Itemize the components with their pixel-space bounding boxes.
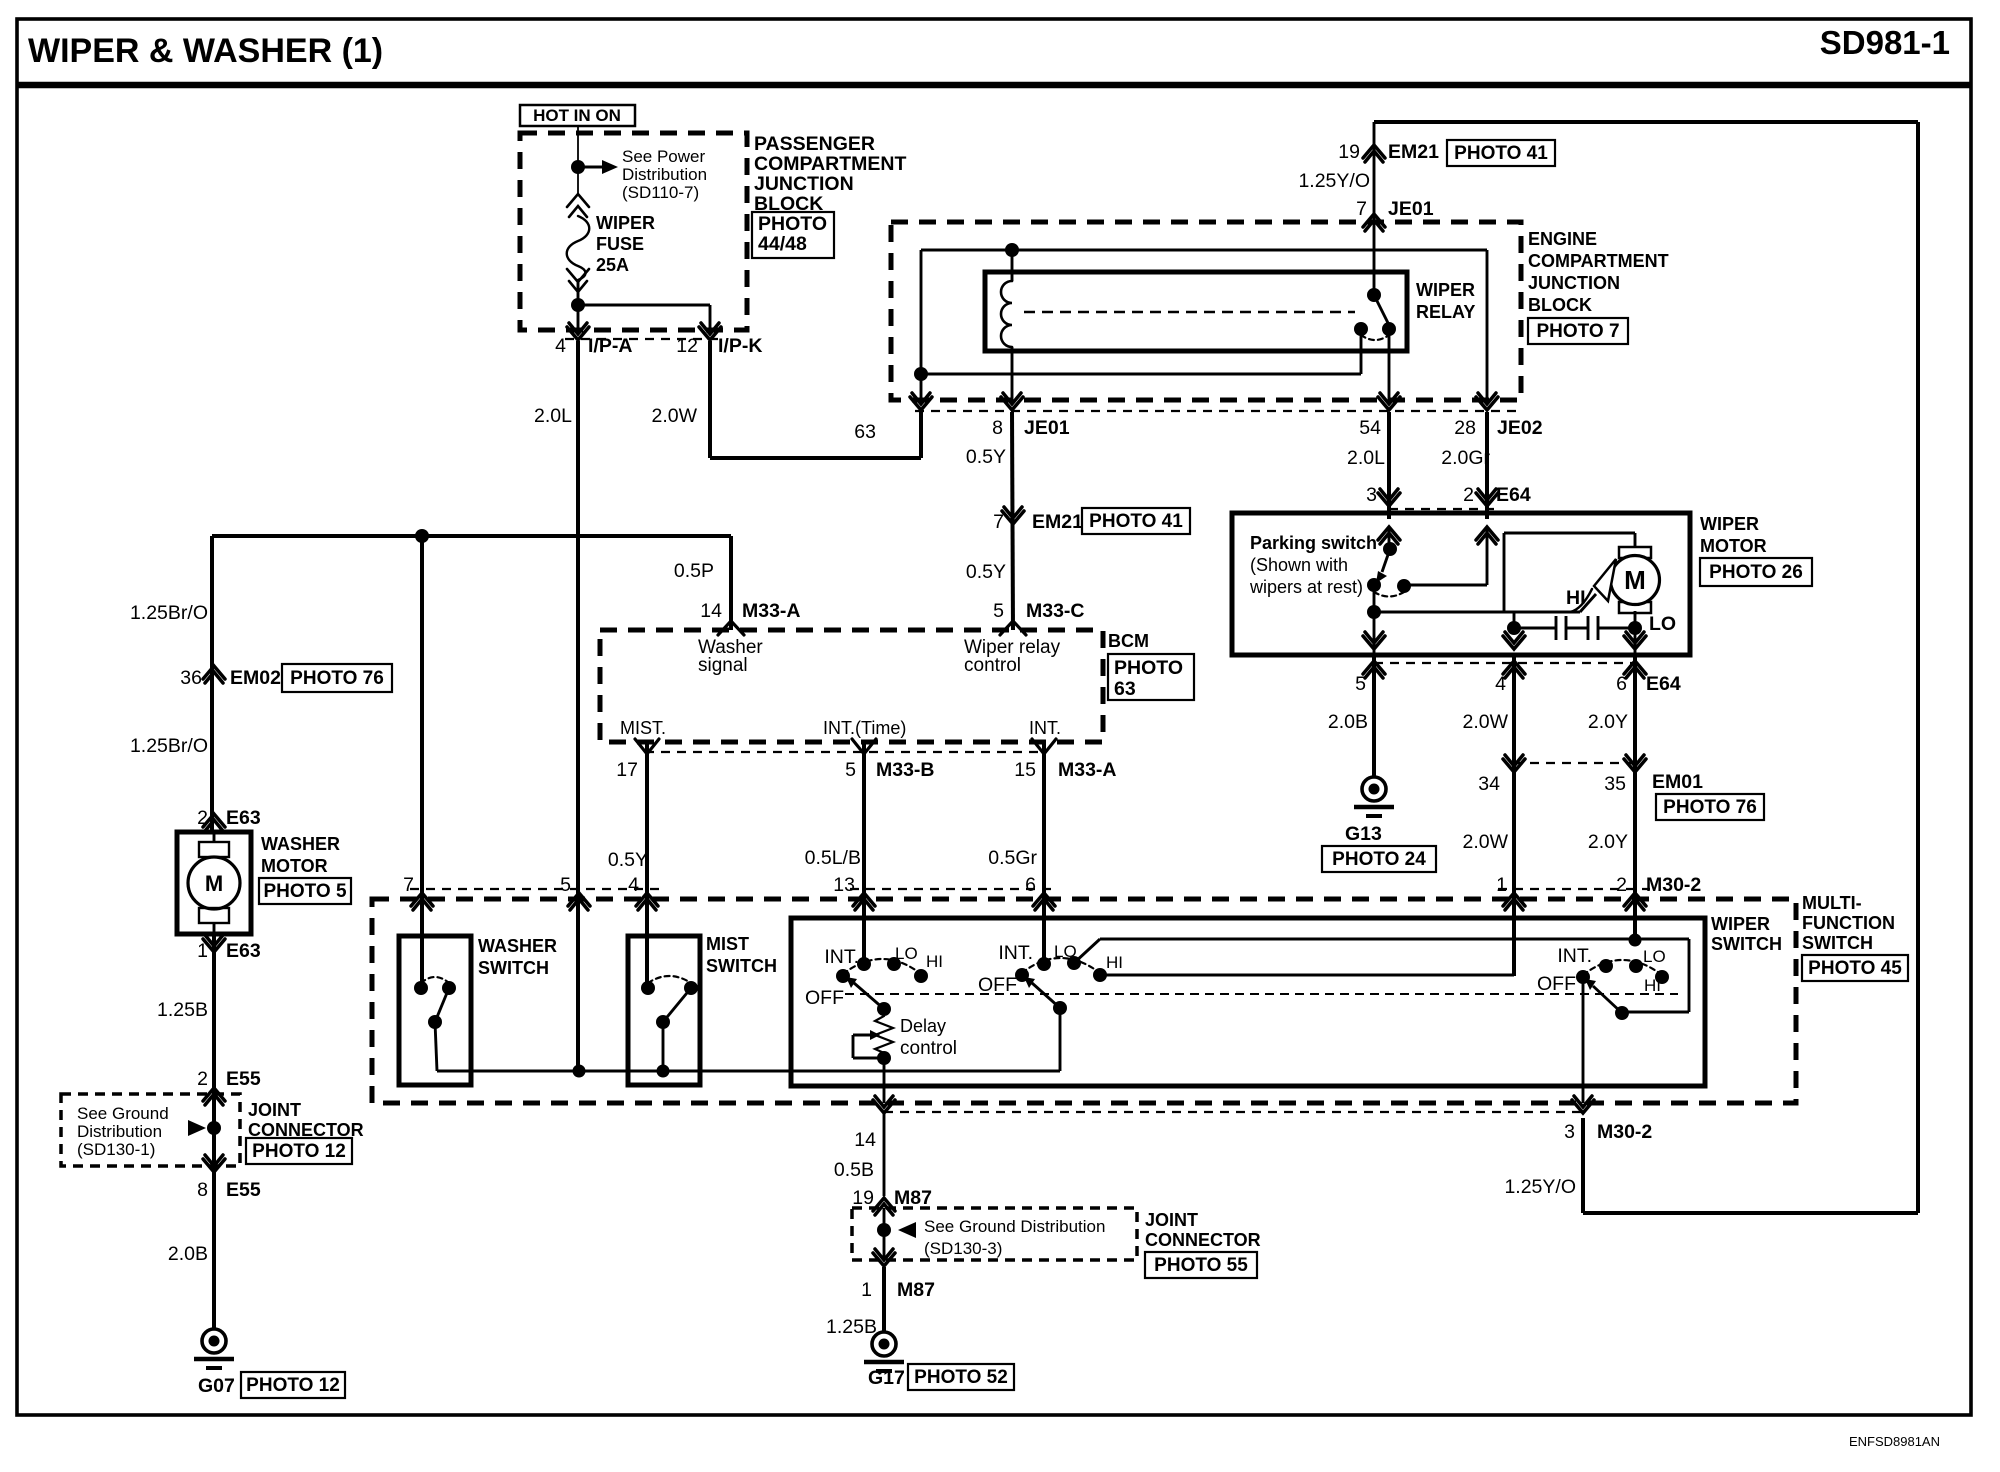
svg-text:ENGINE: ENGINE <box>1528 229 1597 249</box>
svg-text:JOINT: JOINT <box>1145 1210 1198 1230</box>
svg-text:M33-A: M33-A <box>742 600 801 622</box>
svg-text:2.0B: 2.0B <box>1328 711 1368 733</box>
svg-text:5: 5 <box>1355 673 1366 695</box>
svg-text:0.5Y: 0.5Y <box>966 446 1006 468</box>
svg-text:G13: G13 <box>1345 823 1382 845</box>
svg-text:BCM: BCM <box>1108 631 1149 651</box>
svg-text:1.25Br/O: 1.25Br/O <box>130 735 208 757</box>
svg-text:M30-2: M30-2 <box>1646 874 1701 896</box>
svg-text:1: 1 <box>861 1279 872 1301</box>
svg-text:44/48: 44/48 <box>758 233 807 255</box>
svg-text:2: 2 <box>197 1068 208 1090</box>
svg-text:1.25B: 1.25B <box>157 999 208 1021</box>
svg-text:MULTI-: MULTI- <box>1802 893 1862 913</box>
svg-text:2.0Y: 2.0Y <box>1588 711 1628 733</box>
svg-text:1.25Br/O: 1.25Br/O <box>130 602 208 624</box>
svg-text:JE01: JE01 <box>1024 417 1070 439</box>
svg-text:SWITCH: SWITCH <box>1711 934 1782 954</box>
svg-text:2.0Y: 2.0Y <box>1588 831 1628 853</box>
svg-text:PHOTO 24: PHOTO 24 <box>1332 849 1426 870</box>
svg-text:3: 3 <box>1564 1121 1575 1143</box>
svg-text:2.0W: 2.0W <box>1462 711 1508 733</box>
svg-text:PASSENGER: PASSENGER <box>754 133 875 155</box>
svg-text:INT.: INT. <box>998 942 1033 964</box>
svg-text:34: 34 <box>1478 773 1500 795</box>
svg-text:PHOTO 55: PHOTO 55 <box>1154 1255 1248 1276</box>
svg-text:1: 1 <box>1496 874 1507 896</box>
svg-text:WASHER: WASHER <box>261 834 340 854</box>
svg-text:signal: signal <box>698 655 748 676</box>
svg-text:PHOTO 5: PHOTO 5 <box>263 881 346 902</box>
svg-text:3: 3 <box>1366 484 1377 506</box>
svg-text:ENFSD8981AN: ENFSD8981AN <box>1849 1434 1940 1449</box>
svg-text:SD981-1: SD981-1 <box>1820 24 1950 61</box>
svg-text:FUSE: FUSE <box>596 234 644 254</box>
svg-text:HI: HI <box>926 952 943 971</box>
svg-text:4: 4 <box>1495 673 1506 695</box>
svg-text:control: control <box>900 1038 957 1059</box>
svg-text:(SD130-1): (SD130-1) <box>77 1140 155 1159</box>
svg-text:LO: LO <box>1643 947 1666 966</box>
svg-text:OFF: OFF <box>805 987 844 1009</box>
svg-text:19: 19 <box>1338 141 1360 163</box>
svg-text:7: 7 <box>403 874 414 896</box>
svg-text:7: 7 <box>1356 198 1367 220</box>
svg-text:14: 14 <box>700 600 722 622</box>
svg-text:I/P-A: I/P-A <box>588 335 632 357</box>
svg-text:See Ground: See Ground <box>77 1104 169 1123</box>
svg-text:7: 7 <box>993 511 1004 533</box>
svg-text:4: 4 <box>555 335 566 357</box>
svg-text:See Ground Distribution: See Ground Distribution <box>924 1217 1105 1236</box>
svg-text:6: 6 <box>1025 874 1036 896</box>
svg-text:M33-A: M33-A <box>1058 759 1117 781</box>
svg-text:COMPARTMENT: COMPARTMENT <box>1528 251 1669 271</box>
svg-text:PHOTO 52: PHOTO 52 <box>914 1367 1008 1388</box>
svg-text:25A: 25A <box>596 255 629 275</box>
svg-text:M87: M87 <box>894 1187 932 1209</box>
svg-text:54: 54 <box>1359 417 1381 439</box>
svg-text:HI: HI <box>1106 953 1123 972</box>
svg-text:INT.: INT. <box>1557 945 1592 967</box>
svg-text:E55: E55 <box>226 1068 261 1090</box>
svg-text:OFF: OFF <box>978 974 1017 996</box>
svg-text:WIPER: WIPER <box>1711 914 1770 934</box>
svg-text:15: 15 <box>1014 759 1036 781</box>
svg-text:E64: E64 <box>1496 484 1531 506</box>
svg-text:PHOTO 41: PHOTO 41 <box>1089 511 1183 532</box>
svg-text:Parking switch: Parking switch <box>1250 533 1377 553</box>
svg-text:PHOTO 7: PHOTO 7 <box>1536 321 1619 342</box>
svg-text:E63: E63 <box>226 940 261 962</box>
svg-text:2.0W: 2.0W <box>651 405 697 427</box>
svg-text:FUNCTION: FUNCTION <box>1802 913 1895 933</box>
svg-text:WASHER: WASHER <box>478 936 557 956</box>
svg-text:0.5Y: 0.5Y <box>966 561 1006 583</box>
svg-text:EM21: EM21 <box>1032 511 1083 533</box>
svg-text:PHOTO: PHOTO <box>758 213 827 235</box>
svg-text:8: 8 <box>992 417 1003 439</box>
svg-text:HI: HI <box>1566 587 1586 609</box>
svg-text:G07: G07 <box>198 1375 235 1397</box>
svg-text:M30-2: M30-2 <box>1597 1121 1652 1143</box>
svg-text:(Shown with: (Shown with <box>1250 555 1348 575</box>
svg-text:5: 5 <box>560 874 571 896</box>
svg-text:SWITCH: SWITCH <box>478 958 549 978</box>
svg-text:5: 5 <box>993 600 1004 622</box>
svg-text:M: M <box>205 871 223 896</box>
svg-text:wipers at rest): wipers at rest) <box>1249 577 1363 597</box>
svg-text:E64: E64 <box>1646 673 1681 695</box>
svg-text:(SD130-3): (SD130-3) <box>924 1239 1002 1258</box>
svg-text:E63: E63 <box>226 807 261 829</box>
svg-text:5: 5 <box>845 759 856 781</box>
svg-text:WIPER: WIPER <box>596 213 655 233</box>
svg-text:19: 19 <box>852 1187 874 1209</box>
svg-text:BLOCK: BLOCK <box>1528 295 1592 315</box>
svg-text:INT.(Time): INT.(Time) <box>823 718 906 738</box>
svg-text:63: 63 <box>854 421 876 443</box>
svg-text:1: 1 <box>197 940 208 962</box>
svg-text:JUNCTION: JUNCTION <box>1528 273 1620 293</box>
svg-text:2: 2 <box>1616 874 1627 896</box>
svg-text:Distribution: Distribution <box>77 1122 162 1141</box>
svg-text:1.25B: 1.25B <box>826 1316 877 1338</box>
svg-text:EM02: EM02 <box>230 667 281 689</box>
svg-text:0.5Y: 0.5Y <box>608 849 648 871</box>
svg-text:MOTOR: MOTOR <box>1700 536 1767 556</box>
svg-text:WIPER: WIPER <box>1700 514 1759 534</box>
svg-text:0.5B: 0.5B <box>834 1159 874 1181</box>
svg-text:PHOTO 12: PHOTO 12 <box>246 1375 340 1396</box>
svg-text:SWITCH: SWITCH <box>1802 933 1873 953</box>
svg-text:PHOTO 26: PHOTO 26 <box>1709 562 1803 583</box>
svg-text:0.5L/B: 0.5L/B <box>805 847 861 869</box>
svg-text:JUNCTION: JUNCTION <box>754 173 854 195</box>
svg-text:1.25Y/O: 1.25Y/O <box>1298 170 1370 192</box>
svg-text:JE02: JE02 <box>1497 417 1543 439</box>
svg-text:PHOTO 76: PHOTO 76 <box>290 668 384 689</box>
svg-text:2.0Gr: 2.0Gr <box>1441 447 1490 469</box>
svg-text:EM01: EM01 <box>1652 771 1703 793</box>
svg-text:RELAY: RELAY <box>1416 302 1475 322</box>
svg-text:63: 63 <box>1114 678 1136 700</box>
svg-text:M33-B: M33-B <box>876 759 935 781</box>
svg-text:E55: E55 <box>226 1179 261 1201</box>
svg-text:PHOTO 76: PHOTO 76 <box>1663 797 1757 818</box>
svg-text:0.5Gr: 0.5Gr <box>988 847 1037 869</box>
svg-text:INT.: INT. <box>1029 718 1061 738</box>
svg-text:PHOTO 45: PHOTO 45 <box>1808 958 1902 979</box>
svg-text:13: 13 <box>833 874 855 896</box>
svg-text:OFF: OFF <box>1537 973 1576 995</box>
svg-text:CONNECTOR: CONNECTOR <box>1145 1230 1261 1250</box>
svg-text:2.0W: 2.0W <box>1462 831 1508 853</box>
svg-text:36: 36 <box>180 667 202 689</box>
svg-text:EM21: EM21 <box>1388 141 1439 163</box>
svg-text:6: 6 <box>1616 673 1627 695</box>
svg-text:12: 12 <box>676 335 698 357</box>
svg-text:INT.: INT. <box>824 946 859 968</box>
svg-text:WIPER: WIPER <box>1416 280 1475 300</box>
svg-text:G17: G17 <box>868 1367 905 1389</box>
svg-text:PHOTO: PHOTO <box>1114 657 1183 679</box>
svg-text:MOTOR: MOTOR <box>261 856 328 876</box>
svg-text:WIPER & WASHER (1): WIPER & WASHER (1) <box>28 32 383 70</box>
svg-text:28: 28 <box>1454 417 1476 439</box>
svg-text:17: 17 <box>616 759 638 781</box>
svg-text:PHOTO 41: PHOTO 41 <box>1454 143 1548 164</box>
svg-text:8: 8 <box>197 1179 208 1201</box>
svg-text:I/P-K: I/P-K <box>718 335 762 357</box>
svg-text:1.25Y/O: 1.25Y/O <box>1504 1176 1576 1198</box>
svg-text:Delay: Delay <box>900 1016 946 1036</box>
svg-text:Distribution: Distribution <box>622 165 707 184</box>
svg-text:2.0B: 2.0B <box>168 1243 208 1265</box>
svg-text:MIST: MIST <box>706 934 749 954</box>
svg-text:35: 35 <box>1604 773 1626 795</box>
svg-text:M87: M87 <box>897 1279 935 1301</box>
svg-text:JE01: JE01 <box>1388 198 1434 220</box>
svg-text:(SD110-7): (SD110-7) <box>622 183 699 202</box>
svg-text:14: 14 <box>854 1129 876 1151</box>
svg-text:2: 2 <box>1463 484 1474 506</box>
svg-text:2.0L: 2.0L <box>1347 447 1385 469</box>
svg-text:M33-C: M33-C <box>1026 600 1085 622</box>
svg-text:LO: LO <box>1649 613 1676 635</box>
svg-text:M: M <box>1624 565 1646 595</box>
svg-text:0.5P: 0.5P <box>674 560 714 582</box>
svg-text:JOINT: JOINT <box>248 1100 301 1120</box>
svg-text:COMPARTMENT: COMPARTMENT <box>754 153 906 175</box>
svg-text:2.0L: 2.0L <box>534 405 572 427</box>
svg-text:control: control <box>964 655 1021 676</box>
svg-text:See Power: See Power <box>622 147 705 166</box>
svg-text:4: 4 <box>628 874 639 896</box>
svg-text:HOT IN ON: HOT IN ON <box>533 106 621 125</box>
svg-text:SWITCH: SWITCH <box>706 956 777 976</box>
svg-text:MIST.: MIST. <box>620 718 666 738</box>
svg-text:PHOTO 12: PHOTO 12 <box>252 1141 346 1162</box>
